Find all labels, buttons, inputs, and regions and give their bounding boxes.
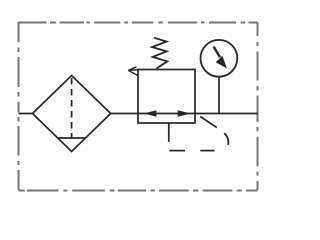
regulator adjustment line (extended top edge) — [129, 69, 138, 72]
adjustment arrowhead — [128, 67, 138, 76]
regulator R1 body (square) — [138, 70, 195, 124]
regulator pilot dashed line: curved dash — [224, 133, 228, 145]
filter element dashed centerline — [71, 78, 73, 138]
gauge stem wire — [218, 77, 220, 114]
pressure gauge G1 (circle) — [201, 40, 238, 77]
gauge needle shaft — [214, 47, 220, 58]
filter F1 body (diamond) — [33, 76, 111, 152]
regulator spring (zigzag) — [152, 38, 167, 69]
gauge needle arrowhead — [216, 56, 227, 69]
filter drain chord (triangle top) — [58, 137, 86, 139]
regulator vent stub — [168, 123, 170, 142]
inlet flow line — [19, 113, 34, 115]
enclosure border (dash-dot assembly boundary) — [19, 22, 258, 191]
left flow arrowhead — [144, 110, 157, 117]
outlet flow line (through regulator to right border) — [111, 113, 258, 115]
regulator pilot dashed line: horizontal dash 2 — [169, 150, 185, 152]
regulator pilot dashed line: horizontal dash 1 — [200, 150, 214, 152]
regulator pilot dashed line: diagonal dash — [200, 117, 217, 128]
regulator flow path with arrows (re-draw line over body) — [138, 113, 195, 115]
right flow arrowhead — [178, 110, 191, 117]
